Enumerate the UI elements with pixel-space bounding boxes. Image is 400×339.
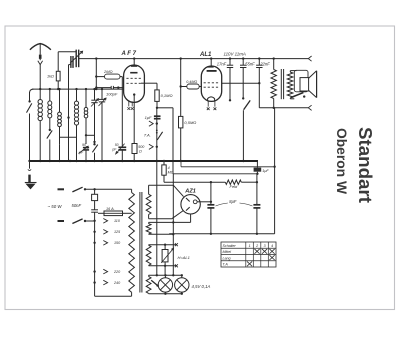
wire speaker return <box>259 107 308 109</box>
wire filter return rail <box>169 233 274 235</box>
svg-text:AL1: AL1 <box>199 52 212 58</box>
terminal TA upper <box>149 121 153 126</box>
transformer winding W4 dial lamps <box>146 276 151 293</box>
svg-text:1kΩ: 1kΩ <box>47 75 54 79</box>
svg-text:1μF: 1μF <box>145 115 152 120</box>
coil L5 <box>85 89 87 107</box>
output transformer core <box>280 69 282 99</box>
wire B+ to output transformer <box>273 57 275 59</box>
svg-text:55nF: 55nF <box>245 61 255 66</box>
switch S4 TA <box>156 130 158 132</box>
coil L3 <box>59 89 61 112</box>
capacitor trimmer C6 <box>101 89 103 99</box>
resistor 4M&#937; <box>163 160 165 162</box>
switch S7 mains lower <box>58 220 65 222</box>
switch S6 mains upper <box>58 188 65 190</box>
lamp La2 <box>181 275 183 277</box>
svg-text:4: 4 <box>271 244 273 248</box>
svg-text:125: 125 <box>114 230 121 234</box>
svg-text:8μF: 8μF <box>229 199 237 204</box>
svg-text:pF: pF <box>111 147 117 151</box>
wire lamp rail top <box>149 274 182 276</box>
svg-text:H=AL1: H=AL1 <box>178 255 190 260</box>
wire AZ1 cathode output <box>197 201 211 203</box>
capacitor trimmer C5 <box>94 89 96 100</box>
AF7 heater pins <box>128 101 130 106</box>
svg-text:AZ1: AZ1 <box>184 188 196 194</box>
wire grid node <box>121 77 123 88</box>
resistor 0,4M&#937; grid <box>187 84 199 89</box>
terminal output top <box>308 56 311 61</box>
svg-text:2MΩ: 2MΩ <box>103 69 113 74</box>
antenna <box>30 44 51 50</box>
svg-text:0,4MΩ: 0,4MΩ <box>186 80 197 84</box>
capacitor 8uF second <box>256 174 258 205</box>
svg-text:A F 7: A F 7 <box>121 51 137 57</box>
svg-text:Standart: Standart <box>355 127 376 203</box>
capacitor 1uF output <box>254 168 262 172</box>
power transformer core <box>139 192 141 293</box>
svg-text:500: 500 <box>138 145 145 149</box>
wire top bus <box>79 58 309 60</box>
svg-text:1μF: 1μF <box>262 169 269 173</box>
svg-text:0,5MΩ: 0,5MΩ <box>184 120 196 125</box>
wire heater line A <box>180 161 182 167</box>
wire AZ1 filament top <box>148 185 150 194</box>
wire TA column <box>156 108 158 161</box>
output transformer primary <box>271 70 276 99</box>
switch table <box>221 242 276 267</box>
svg-text:T.A: T.A <box>223 263 229 267</box>
wire mains top <box>85 188 132 190</box>
AL1 anode <box>207 70 217 72</box>
resistor 0,1M&#937; <box>155 90 159 102</box>
wire heater line B <box>173 173 257 175</box>
wire coupling <box>157 107 173 109</box>
coil L2 <box>49 89 51 101</box>
svg-text:220: 220 <box>113 270 121 274</box>
svg-text:90: 90 <box>82 143 86 147</box>
svg-text:3: 3 <box>264 244 266 248</box>
svg-text:50nF: 50nF <box>72 203 82 208</box>
terminal output bottom <box>308 105 311 110</box>
speaker LS <box>294 70 308 92</box>
ground <box>29 161 31 169</box>
svg-text:Schalter: Schalter <box>223 244 237 248</box>
svg-text:MΩ: MΩ <box>168 170 174 174</box>
terminal TA lower <box>149 144 153 149</box>
transformer winding W1 rectifier heater <box>146 194 151 214</box>
svg-text:~ 50 W: ~ 50 W <box>48 204 63 209</box>
switch S5 tone <box>244 100 251 109</box>
variable capacitor tuning gang <box>75 50 77 68</box>
AL1 cathode <box>208 97 215 101</box>
svg-text:Ω: Ω <box>139 150 142 154</box>
wire primary return <box>95 295 132 297</box>
resistor 1k&#937; <box>56 71 60 81</box>
svg-text:2: 2 <box>255 244 258 248</box>
resistor 2M&#937; grid leak <box>105 74 121 79</box>
svg-text:100pF: 100pF <box>106 91 118 96</box>
capacitor 100pF grid <box>96 87 111 89</box>
wire grid rail <box>32 88 124 90</box>
svg-text:50: 50 <box>115 143 119 147</box>
output transformer secondary <box>287 72 293 98</box>
lamp La1 <box>164 275 166 277</box>
svg-text:110V 11mA: 110V 11mA <box>224 51 246 56</box>
voltage selector taps <box>93 220 95 222</box>
switch S3 contact <box>93 143 95 145</box>
AL1 heater pins <box>207 101 209 106</box>
wire AL1 anode <box>222 82 260 84</box>
wire to tuning cap <box>58 51 76 53</box>
svg-text:T.A.: T.A. <box>144 133 151 138</box>
capacitor 8uF first <box>210 182 212 205</box>
resistor H-AL1 dropper <box>164 245 166 250</box>
variable capacitor second gang <box>70 56 72 68</box>
coil L4 tuned <box>76 89 78 101</box>
AL1 grids <box>204 82 220 84</box>
wire link L3 to L4 <box>60 136 77 138</box>
switch S2 contact <box>49 129 51 131</box>
wire output down <box>274 108 276 234</box>
svg-text:Lang: Lang <box>223 256 231 260</box>
wire heater rail lower <box>148 264 150 266</box>
AF7 grids <box>126 77 142 79</box>
transformer winding W2 HV <box>146 224 151 234</box>
wire W2 return <box>148 233 150 235</box>
switch S1 wave change <box>30 89 34 93</box>
wire chassis bus <box>30 160 259 162</box>
wire column x173 <box>172 174 174 275</box>
wire screen column <box>95 59 97 90</box>
svg-text:4,5V 0,1A: 4,5V 0,1A <box>192 284 211 289</box>
table crosses <box>254 249 259 254</box>
wire lamp rail bottom <box>149 293 182 295</box>
wire AF7 anode lead <box>141 82 157 84</box>
svg-text:240: 240 <box>113 281 121 285</box>
svg-text:110: 110 <box>114 219 121 223</box>
power transformer primary <box>129 193 135 293</box>
svg-text:1: 1 <box>249 244 251 248</box>
svg-text:Mittel: Mittel <box>223 250 232 254</box>
svg-text:pF: pF <box>78 151 84 155</box>
wire oscillator tap <box>69 64 71 66</box>
wire AZ1 return <box>190 214 192 222</box>
svg-text:150: 150 <box>114 241 121 245</box>
wire AZ1 filament bottom <box>148 215 150 219</box>
svg-text:Oberon W: Oberon W <box>334 128 349 194</box>
svg-text:17nF: 17nF <box>217 61 227 66</box>
AF7 cathode <box>133 93 135 95</box>
AF7 anode <box>130 72 137 74</box>
capacitor 50pF cathode <box>121 108 123 148</box>
wire heater rail upper <box>148 244 150 247</box>
resistor 0,5M&#937; <box>180 59 182 117</box>
capacitor trimmer 90pF <box>85 134 87 136</box>
field coil Feld <box>164 181 225 183</box>
coil L1 antenna <box>39 89 41 100</box>
wire antenna lead-in <box>39 65 41 90</box>
svg-text:Feld: Feld <box>230 184 239 189</box>
resistor 500&#937; cathode <box>133 102 135 144</box>
transformer winding W3 AL1 heater <box>146 245 151 265</box>
svg-text:0,1MΩ: 0,1MΩ <box>161 93 173 98</box>
winding tap arrow <box>151 280 157 285</box>
